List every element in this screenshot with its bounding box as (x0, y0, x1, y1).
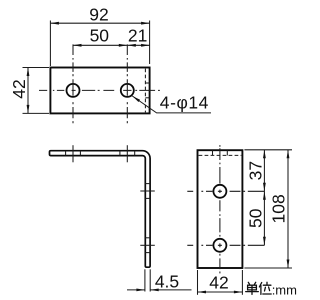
svg-text:42: 42 (9, 79, 29, 98)
extension lines dimension 42 left (23, 68, 50, 114)
svg-text::mm: :mm (272, 283, 297, 298)
svg-text:21: 21 (128, 25, 147, 45)
dimension 4.5 (127, 271, 192, 291)
dimension 92 (50, 5, 149, 25)
svg-text:37: 37 (246, 161, 266, 180)
hidden bend line (top view) (144, 69, 146, 113)
hole projection ticks in top view right band (145, 83, 149, 98)
vertical center line left hole (72, 44, 74, 123)
svg-text:4-φ14: 4-φ14 (160, 93, 209, 113)
extension lines dimension 42 bottom (198, 270, 243, 295)
top view plate outline (50, 68, 149, 114)
unit note kanji i (259, 282, 271, 294)
dimension 42 left (9, 68, 30, 114)
extension lines dimension 92 (50, 21, 149, 67)
unit note colon mm (272, 283, 297, 298)
dimension 21 (127, 25, 149, 46)
svg-text:42: 42 (209, 272, 228, 292)
hidden bend line (front view) (199, 154, 242, 156)
hole left (top view) (67, 84, 80, 97)
horizontal center line (top view) (39, 89, 160, 91)
dimension 108 (269, 150, 290, 268)
hole edge ticks on vertical arm (145, 184, 150, 253)
svg-text:50: 50 (90, 26, 110, 46)
extension line bottom right (244, 267, 292, 269)
dimension 42 bottom (198, 272, 243, 293)
unit note kanji tan (246, 282, 259, 294)
hole projection ticks in front view top band (213, 150, 228, 155)
hole edge ticks on horizontal arm (66, 151, 135, 156)
vertical center line right hole (126, 44, 128, 123)
svg-text:4.5: 4.5 (155, 271, 179, 291)
svg-text:50: 50 (246, 208, 266, 228)
hole right (top view) (121, 84, 134, 97)
leader 4-phi14 (132, 93, 211, 113)
horizontal center line upper hole (187, 190, 264, 192)
dimension 37 and 50 line (246, 150, 266, 246)
extension lines dimension 4.5 (145, 269, 150, 291)
svg-text:92: 92 (89, 5, 108, 25)
front view plate outline (198, 150, 243, 268)
L bracket side view outline (50, 151, 151, 268)
hole upper (front view) (213, 185, 226, 198)
hole lower (front view) (213, 239, 226, 252)
dimension 50 (top) (73, 26, 127, 47)
extension line top right (244, 149, 292, 151)
vertical center line (front view) (219, 145, 221, 273)
horizontal center line lower hole (187, 244, 264, 246)
svg-text:108: 108 (269, 194, 289, 223)
hole center marks on vertical arm (140, 191, 155, 245)
hole center marks on horizontal arm (73, 145, 127, 162)
